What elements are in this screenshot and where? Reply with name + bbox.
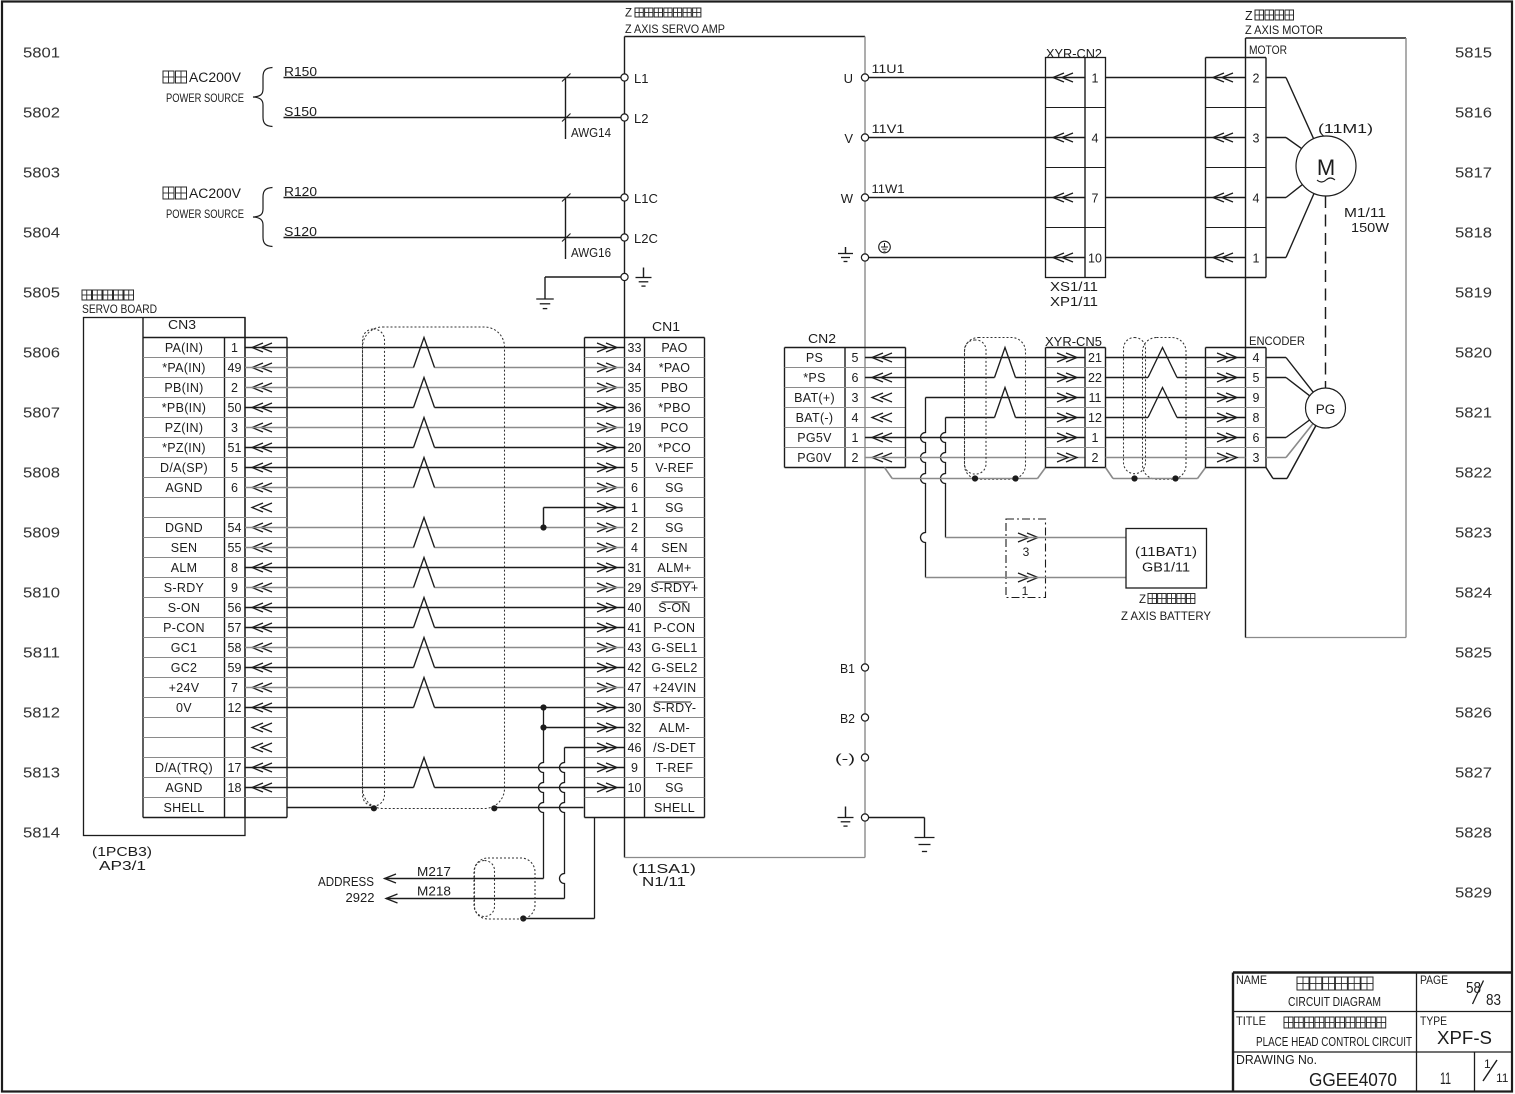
svg-text:7: 7 [231,681,238,695]
wire pin11 to enc9 [1106,397,1246,399]
svg-text:5825: 5825 [1455,645,1492,662]
svg-text:Z: Z [1139,594,1146,606]
wire *PB CN3 to CN1 [245,407,414,409]
svg-text:SG: SG [665,481,684,495]
svg-text:2: 2 [231,381,238,395]
svg-text:AWG14: AWG14 [571,126,611,140]
shield cable oval CN2-CN5 outer [965,338,1026,480]
svg-text:5: 5 [1253,371,1260,385]
svg-text:4: 4 [631,541,638,555]
svg-text:2: 2 [631,521,638,535]
label power source 2 (kanji dengen) [163,187,174,199]
shield wire SHELL row [287,807,374,809]
svg-text:5818: 5818 [1455,225,1492,242]
svg-text:AC200V: AC200V [189,186,241,201]
svg-text:L2: L2 [634,111,648,126]
shield cable oval M217/M218 outer [474,858,535,919]
shield wire encoder to PG [1266,468,1273,479]
terminal L2 [621,114,628,121]
svg-text:S-ON: S-ON [168,601,200,615]
svg-text:Z AXIS SERVO AMP: Z AXIS SERVO AMP [625,22,725,36]
svg-text:POWER SOURCE: POWER SOURCE [166,91,244,105]
svg-text:58: 58 [228,641,242,655]
battery connector pin 3 [1018,533,1038,542]
svg-text:9: 9 [231,581,238,595]
svg-text:1: 1 [852,431,859,445]
svg-text:SG: SG [665,501,684,515]
svg-text:33: 33 [628,341,642,355]
svg-text:SEN: SEN [171,541,198,555]
svg-text:*PZ(IN): *PZ(IN) [162,441,206,455]
svg-text:PG: PG [1316,402,1336,417]
svg-text:PS: PS [806,351,823,365]
wire PE terminal to ground [545,276,621,278]
svg-text:G-SEL1: G-SEL1 [651,641,697,655]
svg-text:PG0V: PG0V [797,451,832,465]
svg-text:GC2: GC2 [171,661,198,675]
svg-text:MOTOR: MOTOR [1249,43,1287,57]
svg-text:M218: M218 [417,885,451,899]
svg-text:W: W [841,191,854,206]
brace power source 2 [253,188,273,247]
shield wire CN2 to CN5 [885,468,893,479]
connector CN3 receive chevrons [252,343,272,352]
wire battery pin1 [926,577,1127,579]
brace power source 1 [253,68,273,127]
svg-text:5814: 5814 [23,825,60,842]
wire D/A(SP) CN3 to CN1 [245,467,625,469]
battery connector pin 1 [1018,573,1038,582]
svg-text:(1PCB3): (1PCB3) [92,845,152,859]
svg-text:3: 3 [1023,545,1030,559]
svg-text:PLACE HEAD CONTROL CIRCUIT: PLACE HEAD CONTROL CIRCUIT [1256,1035,1412,1049]
svg-text:POWER SOURCE: POWER SOURCE [166,207,244,221]
wire *PS to pin22 (twisted) [865,377,995,379]
svg-text:AP3/1: AP3/1 [99,859,146,873]
svg-text:G-SEL2: G-SEL2 [651,661,697,675]
svg-text:ALM-: ALM- [659,721,690,735]
wire *PZ CN3 to CN1 [245,447,414,449]
svg-text:5804: 5804 [23,225,60,242]
svg-text:12: 12 [1088,411,1102,425]
svg-text:2: 2 [852,451,859,465]
Z axis motor outer box [1246,37,1407,39]
svg-text:5811: 5811 [23,645,60,662]
svg-text:5807: 5807 [23,405,60,422]
label power source 1 (kanji dengen) [163,71,174,83]
svg-text:5816: 5816 [1455,105,1492,122]
wire ALM CN3 to CN1 [245,567,625,569]
svg-text:L1C: L1C [634,191,658,206]
terminal (-) [861,754,868,761]
svg-text:AWG16: AWG16 [571,246,611,260]
cable AWG16 marker [565,198,567,260]
dashed shaft line motor to encoder [1325,196,1327,388]
svg-text:43: 43 [628,641,642,655]
svg-text:V: V [844,131,853,146]
svg-text:PB(IN): PB(IN) [164,381,203,395]
svg-text:(11SA1): (11SA1) [632,862,696,876]
shield cable oval CN2-CN5 inner [965,340,987,474]
wires XYR-CN2 to MOTOR [1106,77,1246,79]
svg-text:5803: 5803 [23,165,60,182]
servo board box AP3/1 [84,318,246,836]
svg-text:S-RDY: S-RDY [164,581,205,595]
wire SEN CN3 to CN1 [245,547,414,549]
shield cable oval CN3-CN1 outer [363,327,505,809]
svg-text:5819: 5819 [1455,285,1492,302]
svg-text:1: 1 [1092,72,1099,86]
svg-text:PCO: PCO [661,421,689,435]
svg-text:S-ON: S-ON [658,601,690,615]
svg-text:GB1/11: GB1/11 [1142,561,1190,575]
svg-text:6: 6 [631,481,638,495]
svg-text:11W1: 11W1 [872,182,905,196]
connector ENCODER table [1205,348,1207,468]
terminal B1 [861,664,868,671]
svg-text:59: 59 [228,661,242,675]
svg-text:B2: B2 [840,711,855,726]
svg-text:CN2: CN2 [808,331,836,346]
svg-text:PG5V: PG5V [797,431,832,445]
svg-text:(11M1): (11M1) [1318,122,1373,136]
svg-text:40: 40 [628,601,642,615]
svg-text:4: 4 [1092,132,1099,146]
svg-text:55: 55 [228,541,242,555]
connector MOTOR table [1205,58,1207,278]
svg-text:D/A(TRQ): D/A(TRQ) [155,761,213,775]
wire GC2 CN3 to CN1 [245,667,414,669]
svg-text:150W: 150W [1351,221,1389,235]
wire PA CN3 to CN1 [245,347,625,349]
svg-text:1: 1 [1484,1057,1491,1071]
svg-text:47: 47 [628,681,642,695]
svg-text:1: 1 [1092,431,1099,445]
svg-text:CIRCUIT DIAGRAM: CIRCUIT DIAGRAM [1288,994,1381,1009]
arrowhead M217 [385,874,397,883]
svg-text:M: M [1317,155,1335,180]
svg-text:7: 7 [1092,192,1099,206]
svg-text:58: 58 [1466,980,1481,997]
svg-text:(-): (-) [835,751,855,766]
svg-text:20: 20 [628,441,642,455]
twisted pair carets CN3-CN1 [414,338,435,368]
svg-text:5821: 5821 [1455,405,1492,422]
svg-text:XPF-S: XPF-S [1437,1028,1492,1048]
svg-text:+24V: +24V [169,681,200,695]
battery box GB1/11 [1126,529,1207,589]
svg-text:30: 30 [628,701,642,715]
svg-text:XYR-CN2: XYR-CN2 [1046,47,1102,61]
svg-text:V-REF: V-REF [655,461,693,475]
svg-text:PBO: PBO [661,381,688,395]
svg-text:Z AXIS BATTERY: Z AXIS BATTERY [1121,609,1211,623]
wires encoder pins to PG [1266,357,1286,359]
svg-text:S-RDY-: S-RDY- [653,701,697,715]
svg-text:*PAO: *PAO [659,361,691,375]
svg-text:5: 5 [631,461,638,475]
svg-text:17: 17 [228,761,242,775]
svg-text:22: 22 [1088,371,1102,385]
svg-text:49: 49 [228,361,242,375]
svg-text:11V1: 11V1 [872,122,905,136]
svg-text:5: 5 [231,461,238,475]
svg-text:Z: Z [1245,9,1253,23]
svg-text:10: 10 [628,781,642,795]
wire battery pin3 [946,537,1127,539]
svg-text:L2C: L2C [634,231,658,246]
svg-text:U: U [844,71,853,86]
svg-text:5817: 5817 [1455,165,1492,182]
servo amp box (11SA1) outline [625,36,866,38]
wire GND terminal to earth [869,817,925,819]
svg-text:5820: 5820 [1455,345,1492,362]
svg-text:5824: 5824 [1455,585,1492,602]
svg-text:5829: 5829 [1455,885,1492,902]
svg-text:SHELL: SHELL [654,801,695,815]
wire 0V CN3 to CN1 [245,707,414,709]
svg-text:PAO: PAO [661,341,687,355]
terminal U and wire 11U1 [861,74,868,81]
svg-text:GC1: GC1 [171,641,198,655]
svg-text:*PA(IN): *PA(IN) [162,361,206,375]
arrowhead M218 [386,894,398,903]
svg-text:3: 3 [231,421,238,435]
motor M1 circle (11M1) [1296,136,1356,196]
terminal PE right with earth wire [861,254,868,261]
svg-text:R150: R150 [284,64,317,79]
wire AGND CN3 to CN1 [245,487,414,489]
wire PB CN3 to CN1 [245,387,625,389]
svg-text:B1: B1 [840,661,855,676]
svg-text:TITLE: TITLE [1236,1014,1266,1028]
wire pin12 to enc8 (twisted) [1106,417,1149,419]
svg-text:4: 4 [852,411,859,425]
svg-text:XS1/11: XS1/11 [1050,280,1098,294]
svg-text:P-CON: P-CON [163,621,205,635]
wire S-ON CN3 to CN1 [245,607,625,609]
shield wire CN5 to ENC [1106,468,1114,479]
svg-text:83: 83 [1486,992,1501,1009]
svg-text:6: 6 [1253,431,1260,445]
svg-text:M1/11: M1/11 [1344,206,1386,220]
terminal PE with ground mark [621,273,628,280]
svg-text:1: 1 [631,501,638,515]
wire D/A(TRQ) CN3 to CN1 [245,767,625,769]
svg-text:M217: M217 [417,865,451,879]
shield cable oval CN5-ENC outer [1143,338,1187,480]
svg-text:5810: 5810 [23,585,60,602]
wire GC1 CN3 to CN1 [245,647,625,649]
svg-text:R120: R120 [284,184,317,199]
svg-text:1: 1 [1022,584,1029,598]
svg-text:DGND: DGND [165,521,203,535]
svg-text:5808: 5808 [23,465,60,482]
connector CN1 send chevrons [597,343,617,352]
svg-text:T-REF: T-REF [656,761,694,775]
connector CN1 table grid [584,338,586,818]
svg-text:5802: 5802 [23,105,60,122]
svg-text:ALM+: ALM+ [657,561,691,575]
wire PG5V to pin1 [865,437,1085,439]
svg-text:*PCO: *PCO [658,441,691,455]
svg-text:8: 8 [231,561,238,575]
svg-text:18: 18 [228,781,242,795]
svg-text:54: 54 [228,521,242,535]
vertical junction wire to M218 [560,748,565,899]
svg-text:5801: 5801 [23,45,60,62]
connector CN3 table grid [142,318,144,818]
connector XYR-CN2 table [1046,58,1106,278]
svg-text:P-CON: P-CON [654,621,696,635]
encoder PG circle [1306,388,1346,428]
svg-text:50: 50 [228,401,242,415]
svg-text:CN1: CN1 [652,319,680,334]
shield drop from CN1 SHELL [594,818,596,919]
terminal V and wire 11V1 [861,134,868,141]
terminal L1C [621,194,628,201]
svg-text:5823: 5823 [1455,525,1492,542]
svg-text:31: 31 [628,561,642,575]
svg-text:*PB(IN): *PB(IN) [162,401,206,415]
svg-text:2: 2 [1092,451,1099,465]
circled earth symbol on PE wire [879,241,891,253]
svg-text:DRAWING No.: DRAWING No. [1236,1053,1317,1067]
svg-text:11: 11 [1089,391,1102,405]
svg-text:AGND: AGND [165,781,202,795]
battery connector (dash-dot box) [1006,519,1046,598]
wire P-CON CN3 to CN1 [245,627,414,629]
terminal L1 [621,74,628,81]
wire pin2 to enc3 [1106,457,1246,459]
svg-text:3: 3 [852,391,859,405]
svg-text:51: 51 [228,441,242,455]
svg-text:PZ(IN): PZ(IN) [165,421,204,435]
svg-text:S150: S150 [284,104,317,119]
svg-text:5812: 5812 [23,705,60,722]
svg-text:11U1: 11U1 [872,62,905,76]
svg-text:ALM: ALM [171,561,198,575]
wire pin1 to enc6 [1106,437,1246,439]
svg-text:4: 4 [1253,192,1260,206]
wire pin21 to enc4 [1106,357,1246,359]
wire pin22 to enc5 (twisted) [1106,377,1149,379]
svg-text:BAT(+): BAT(+) [794,391,835,405]
wire AGND2 CN3 to CN1 [245,787,414,789]
svg-text:AGND: AGND [165,481,202,495]
shield cable oval M217/M218 inner [475,861,495,917]
svg-text:*PS: *PS [803,371,825,385]
svg-text:6: 6 [231,481,238,495]
svg-text:36: 36 [628,401,642,415]
wire PZ CN3 to CN1 [245,427,625,429]
label SERVO BOARD (kanji) [82,290,92,300]
shield cable oval CN3-CN1 inner [363,329,385,806]
svg-text:SEN: SEN [661,541,688,555]
svg-text:32: 32 [628,721,642,735]
svg-text:41: 41 [628,621,642,635]
svg-text:9: 9 [1253,391,1260,405]
svg-text:1: 1 [1253,252,1260,266]
svg-text:5826: 5826 [1455,705,1492,722]
svg-text:2: 2 [1253,72,1260,86]
svg-text:SG: SG [665,521,684,535]
svg-text:*PBO: *PBO [658,401,690,415]
wire PS to pin21 [865,357,1085,359]
ground symbol left of PE terminal [845,247,847,254]
title block frame [1233,971,1513,973]
svg-text:GGEE4070: GGEE4070 [1309,1069,1397,1090]
svg-text:(11BAT1): (11BAT1) [1135,545,1197,559]
svg-text:34: 34 [628,361,642,375]
svg-text:PAGE: PAGE [1420,973,1448,987]
svg-text:11: 11 [1496,1071,1509,1085]
wire +24V CN3 to CN1 [245,687,625,689]
svg-text:AC200V: AC200V [189,70,241,85]
wire S-RDY CN3 to CN1 [245,587,414,589]
svg-text:SG: SG [665,781,684,795]
wire BAT(-) riser to battery [941,418,946,538]
svg-text:D/A(SP): D/A(SP) [160,461,208,475]
connector XYR-CN5 table [1045,348,1047,468]
cable AWG14 marker [565,78,567,140]
terminal W and wire 11W1 [861,194,868,201]
svg-text:SHELL: SHELL [163,801,204,815]
svg-text:0V: 0V [176,701,192,715]
svg-text:NAME: NAME [1236,973,1267,987]
wire PG0V to pin2 [865,457,1085,459]
svg-text:19: 19 [628,421,642,435]
wire /S-DET branch [565,747,625,749]
svg-text:2922: 2922 [346,891,375,905]
svg-text:21: 21 [1088,351,1102,365]
shield cable oval CN5-ENC inner [1124,338,1146,474]
ground symbol right of amp [915,837,935,839]
terminal GND bottom right [861,814,868,821]
svg-text:SERVO BOARD: SERVO BOARD [82,302,157,316]
svg-text:29: 29 [628,581,642,595]
svg-text:46: 46 [628,741,642,755]
svg-text:S-RDY+: S-RDY+ [651,581,699,595]
terminal L2C [621,234,628,241]
wire *PA CN3 to CN1 [245,367,414,369]
wires MOTOR pins to motor M1 [1266,77,1286,79]
svg-text:5809: 5809 [23,525,60,542]
svg-text:3: 3 [1253,132,1260,146]
connector CN2 chevron box [905,348,907,468]
svg-text:ADDRESS: ADDRESS [318,875,374,889]
svg-text:5806: 5806 [23,345,60,362]
svg-text:5805: 5805 [23,285,60,302]
connector CN2 table [784,348,786,468]
svg-text:/S-DET: /S-DET [653,741,696,755]
svg-text:57: 57 [228,621,242,635]
svg-text:56: 56 [228,601,242,615]
ground symbol below L2C [536,298,554,300]
svg-text:12: 12 [228,701,242,715]
svg-text:+24VIN: +24VIN [653,681,697,695]
svg-text:5813: 5813 [23,765,60,782]
terminal B2 [861,714,868,721]
svg-text:5815: 5815 [1455,45,1492,62]
svg-text:11: 11 [1440,1069,1451,1088]
svg-text:10: 10 [1088,252,1102,266]
svg-text:3: 3 [1253,451,1260,465]
svg-text:5828: 5828 [1455,825,1492,842]
svg-text:Z AXIS MOTOR: Z AXIS MOTOR [1245,23,1323,37]
svg-text:5: 5 [852,351,859,365]
wire DGND CN3 to CN1 [245,527,625,529]
